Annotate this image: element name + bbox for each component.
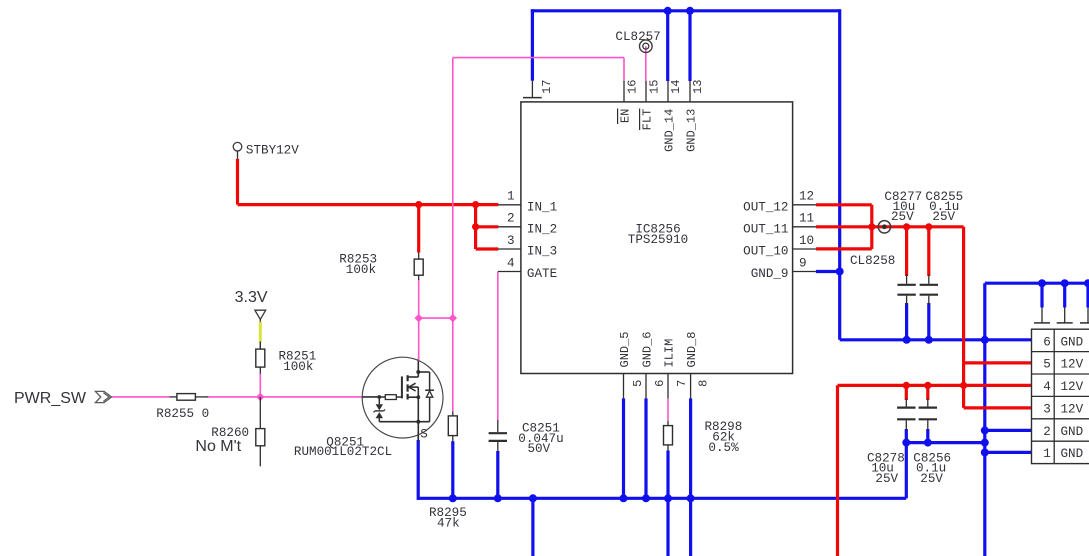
resistor R8253 100k [339,253,423,281]
svg-text:RUM001L02T2CL: RUM001L02T2CL [294,445,392,459]
svg-text:50V: 50V [528,442,551,456]
junction capbus vert [981,439,989,447]
IC8256 pin 4 GATE [498,256,557,281]
svg-text:IN_1: IN_1 [527,200,557,214]
svg-text:12V: 12V [1061,380,1084,394]
junction 12V bus x964 [960,382,967,389]
junction bus pin6 [642,494,650,502]
wire row2 GND [985,429,1032,432]
connector pin 2 GND [1043,425,1083,439]
junction bus pin8 [687,494,695,502]
IC8256 pin 8 GND_8 [685,331,710,398]
IC8256 pin 5 GND_5 [618,331,645,398]
connector top pin stub 1 [1034,308,1050,323]
junction top bus pin14 [664,7,672,15]
svg-text:OUT_10: OUT_10 [743,245,788,259]
wire drop x533 [531,498,534,556]
wire GATE net vertical [497,272,499,421]
IC8256 pin 11 OUT_11 [743,212,816,237]
wire pin9 to GND drop [816,270,841,273]
junction EN left [415,314,423,322]
svg-text:2: 2 [1043,425,1051,439]
junction C8256 GND [924,439,932,447]
test point CL8257 [615,30,660,52]
wire connector top bus [985,282,1089,285]
svg-text:10: 10 [799,234,814,248]
svg-text:3.3V: 3.3V [235,289,268,306]
svg-text:12V: 12V [1061,358,1084,372]
port PWR_SW [14,390,112,407]
wire C8256 top leg [926,385,929,400]
IC8256 pin 17 [523,80,554,98]
EN overbar [617,109,619,125]
wire C8255 top leg [927,227,930,276]
IC8256 pin 15 FLT [641,80,662,131]
IC8256 pin 10 OUT_10 [743,234,816,259]
wire CL8257 to pin15 [645,46,647,81]
wire PWR_SW left segment [112,396,171,398]
svg-text:4: 4 [1043,380,1051,394]
wire R8295 bottom leg [451,441,454,498]
wire EN drop to pin16 [623,58,625,82]
junction C8277 GND [903,336,911,344]
junction C8278 12V [903,382,910,389]
svg-text:6: 6 [1043,336,1051,350]
wire R8251 bottom leg [259,373,261,397]
wire C8251 bottom leg [496,451,499,498]
wire connector top pin c [1086,283,1089,307]
svg-text:6: 6 [653,380,667,387]
junction row1 [981,448,989,456]
IC8256 pin 9 GND_9 [751,256,816,281]
connector top pin stub 3 [1080,308,1089,323]
junction bus x533 [529,494,537,502]
junction 12V R8253 [415,201,422,208]
svg-text:CL8257: CL8257 [615,30,660,44]
wire row3 12V [964,406,1032,409]
wire C8278 top leg [905,385,908,400]
capacitor C8277 10u [884,190,922,305]
wire connector top pin a [1040,283,1043,307]
capacitor C8255 0.1u [920,190,964,305]
wire OUT_11 to vert [816,225,964,228]
junction bus C8251 [494,494,502,502]
wire OUT_12 [816,203,872,206]
junction C8255 GND [925,336,933,344]
connector J1 body [1032,329,1089,463]
wire OUT_10 [816,247,872,250]
svg-text:5: 5 [631,380,645,387]
svg-text:17: 17 [540,80,554,94]
capacitor C8278 10u [867,399,916,487]
wire C8277 top leg [905,227,908,276]
svg-text:GND_8: GND_8 [685,331,699,367]
connector pin 4 12V [1043,380,1083,394]
junction PWR_SW node [256,393,264,401]
wire pin17 drop [531,9,534,81]
capacitor C8251 0.047u [489,420,564,456]
IC8256 pin 13 GND_13 [685,80,705,152]
junction C8278 GND [902,439,910,447]
svg-text:100k: 100k [346,263,376,277]
capacitor C8256 0.1u [913,399,951,487]
svg-text:GND_9: GND_9 [751,267,789,281]
junction IN_2 [472,223,479,230]
wire GND top bus [531,9,840,12]
wire source below circle [417,435,419,441]
connector top pin stub 2 [1057,308,1073,323]
svg-text:GND: GND [1061,447,1084,461]
svg-text:14: 14 [669,80,683,94]
junction bus pin7 [664,494,672,502]
wire EN top horizontal [453,57,624,59]
junction bus R8295 [449,494,457,502]
junction row2 [981,426,989,434]
svg-text:3: 3 [507,234,515,248]
svg-text:47k: 47k [437,516,460,530]
wire R8298 bottom leg [666,451,669,556]
IC8256 pin 7 ILIM [663,339,689,399]
wire row1 GND [985,451,1032,454]
junction EN right [449,314,457,322]
IC8256 pin 1 IN_1 [498,190,557,215]
IC8256 pin 14 GND_14 [663,80,684,152]
junction C8277 12V [903,223,910,230]
junction GND bus vert985 [981,336,989,344]
svg-text:CL8258: CL8258 [850,254,895,268]
wire Q8251 source leg [417,440,420,500]
svg-text:GND_13: GND_13 [685,109,699,152]
svg-text:PWR_SW: PWR_SW [14,390,87,407]
wire PWR_SW right segment [208,396,363,398]
svg-text:FLT: FLT [641,109,655,131]
wire pin6 leg [644,398,647,498]
wire C8256 bottom leg [926,429,929,443]
svg-text:OUT_12: OUT_12 [743,200,788,214]
wire C8255 bottom leg [927,303,930,340]
junction top pin c [1084,279,1089,287]
wire R8253 top leg [417,205,420,253]
svg-text:9: 9 [799,256,807,270]
connector pin 3 12V [1043,403,1083,417]
svg-text:1: 1 [507,190,515,204]
svg-text:GND_5: GND_5 [618,331,632,367]
wire 3.3V to R8251 [259,342,261,350]
svg-text:1: 1 [1043,447,1051,461]
wire R8253 bottom to drain [418,280,420,360]
wire drain into circle [418,355,420,361]
svg-text:TPS25910: TPS25910 [628,233,688,247]
svg-text:11: 11 [799,212,814,226]
svg-text:12V: 12V [1061,403,1084,417]
junction pin9 GND [836,268,844,276]
svg-text:GND_6: GND_6 [641,331,655,367]
transistor Q8251 RUM001L02T2CL [362,357,443,441]
svg-text:25V: 25V [920,472,943,486]
junction C8255 12V [925,223,932,230]
resistor R8255 0 [156,394,209,422]
wire C8278 bottom leg [905,429,908,443]
svg-text:R8255 0: R8255 0 [156,407,209,421]
IC8256 pin 2 IN_2 [498,212,557,237]
wire pin5 leg [622,398,625,498]
wire 12V drop x837 [836,385,839,556]
svg-text:3: 3 [1043,403,1051,417]
wire STBY12V vertical [236,159,239,205]
wire C8277 bottom leg [905,303,908,340]
power symbol 3.3V [235,289,268,323]
wire pin14 riser [666,9,669,81]
resistor R8295 47k [429,412,467,531]
junction C8256 12V [924,382,931,389]
wire to pin2 [476,225,499,228]
wire GND vertical right [983,283,986,556]
connector pin 5 12V [1043,358,1083,372]
wire connector top pin b [1063,283,1066,307]
svg-text:GND: GND [1061,425,1084,439]
svg-text:EN: EN [619,109,633,123]
junction bus pin5 [620,494,628,502]
svg-text:2: 2 [507,212,515,226]
svg-text:12: 12 [799,190,814,204]
IC8256 pin 12 OUT_12 [743,190,816,215]
svg-text:100k: 100k [283,360,313,374]
resistor R8251 100k [256,342,316,374]
test point CL8258 [850,221,895,268]
wire to pin3 [476,247,499,250]
svg-text:OUT_11: OUT_11 [743,222,788,236]
svg-text:0.5%: 0.5% [708,441,739,455]
svg-text:STBY12V: STBY12V [246,144,299,158]
svg-text:IN_2: IN_2 [527,222,557,236]
connector pin 6 GND [1043,336,1083,350]
wire IN branch vertical [474,205,477,249]
IC8256 pin 3 IN_3 [498,234,557,259]
junction top pin a [1038,279,1046,287]
wire GND riser x906 [905,443,908,499]
highlighted net segment 3.3V [259,322,262,343]
connector pin 1 GND [1043,447,1083,461]
svg-text:7: 7 [675,380,689,387]
wire OUT branch vertical [870,205,873,249]
resistor R8260 No M't [195,397,264,466]
svg-text:GND_14: GND_14 [663,109,677,152]
terminal STBY12V [233,142,299,158]
wire 12V main horizontal [238,203,499,206]
wire EN to R8295 [452,318,454,411]
wire EN jog horizontal [419,317,453,319]
junction 12V branch [472,201,479,208]
svg-text:25V: 25V [932,210,955,224]
svg-text:GATE: GATE [527,267,557,281]
svg-text:No M't: No M't [195,438,241,455]
wire main bottom GND bus [418,497,906,500]
junction top bus pin13 [686,7,694,15]
svg-text:16: 16 [626,80,640,94]
wire pin8 leg [689,398,692,556]
svg-text:8: 8 [696,380,710,387]
svg-text:IN_3: IN_3 [527,245,557,259]
wire right GND drop [838,9,841,340]
svg-text:15: 15 [647,80,661,94]
svg-text:GND: GND [1061,336,1084,350]
wire ILIM pink leg [667,398,669,421]
op-amp U1 IC8256 body [521,102,793,374]
wire EN long vertical [452,58,454,319]
wire 12V bus y385 row4 [838,384,1032,387]
svg-text:4: 4 [507,256,515,270]
IC8256 pin 6 GND_6 [641,331,668,398]
wire row5 12V [964,361,1032,364]
resistor R8298 62k [664,420,743,455]
wire 12V vertical x964 [962,227,965,408]
junction top pin b [1061,279,1069,287]
junction OUT_11 [868,223,875,230]
svg-text:13: 13 [691,80,705,94]
svg-text:5: 5 [1043,358,1051,372]
svg-text:25V: 25V [875,472,898,486]
wire GND bus y339 [840,338,1032,341]
wire cap bottom bus y443 [906,441,985,444]
FLT overbar [639,109,641,131]
svg-text:ILIM: ILIM [663,339,677,368]
svg-text:S: S [420,427,428,441]
svg-text:25V: 25V [891,210,914,224]
wire pin13 riser [688,9,691,81]
IC8256 pin 16 EN [619,80,640,124]
